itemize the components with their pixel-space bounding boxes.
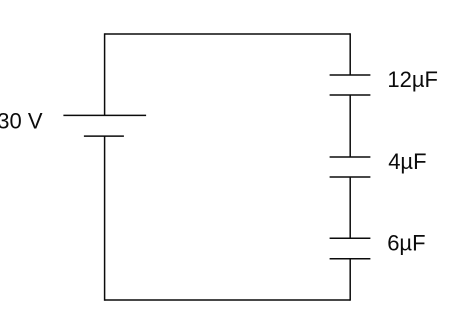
wire left upper (battery + terminal to top) — [104, 33, 106, 115]
battery V1 plate - (short) — [84, 135, 124, 137]
wire top — [105, 33, 351, 35]
svg-text:6µF: 6µF — [387, 230, 425, 255]
capacitor C1 12µF top plate — [330, 74, 371, 76]
wire left lower (battery - terminal to bottom) — [104, 136, 106, 301]
capacitor C3 6µF bottom plate — [330, 258, 371, 260]
capacitor C2 4µF bottom plate — [330, 176, 371, 178]
battery V1 plate + (long) — [63, 114, 146, 116]
svg-text:12µF: 12µF — [387, 67, 438, 92]
svg-text:4µF: 4µF — [388, 149, 426, 174]
wire C2 to C3 — [349, 177, 351, 238]
capacitor C1 12µF bottom plate — [330, 94, 371, 96]
wire right upper (top to C1) — [349, 33, 351, 75]
capacitor C2 4µF top plate — [330, 156, 371, 158]
capacitor C3 6µF top plate — [330, 237, 371, 239]
svg-text:30 V: 30 V — [0, 109, 43, 134]
wire bottom — [105, 299, 351, 301]
wire C1 to C2 — [349, 95, 351, 157]
wire C3 to bottom — [349, 259, 351, 301]
